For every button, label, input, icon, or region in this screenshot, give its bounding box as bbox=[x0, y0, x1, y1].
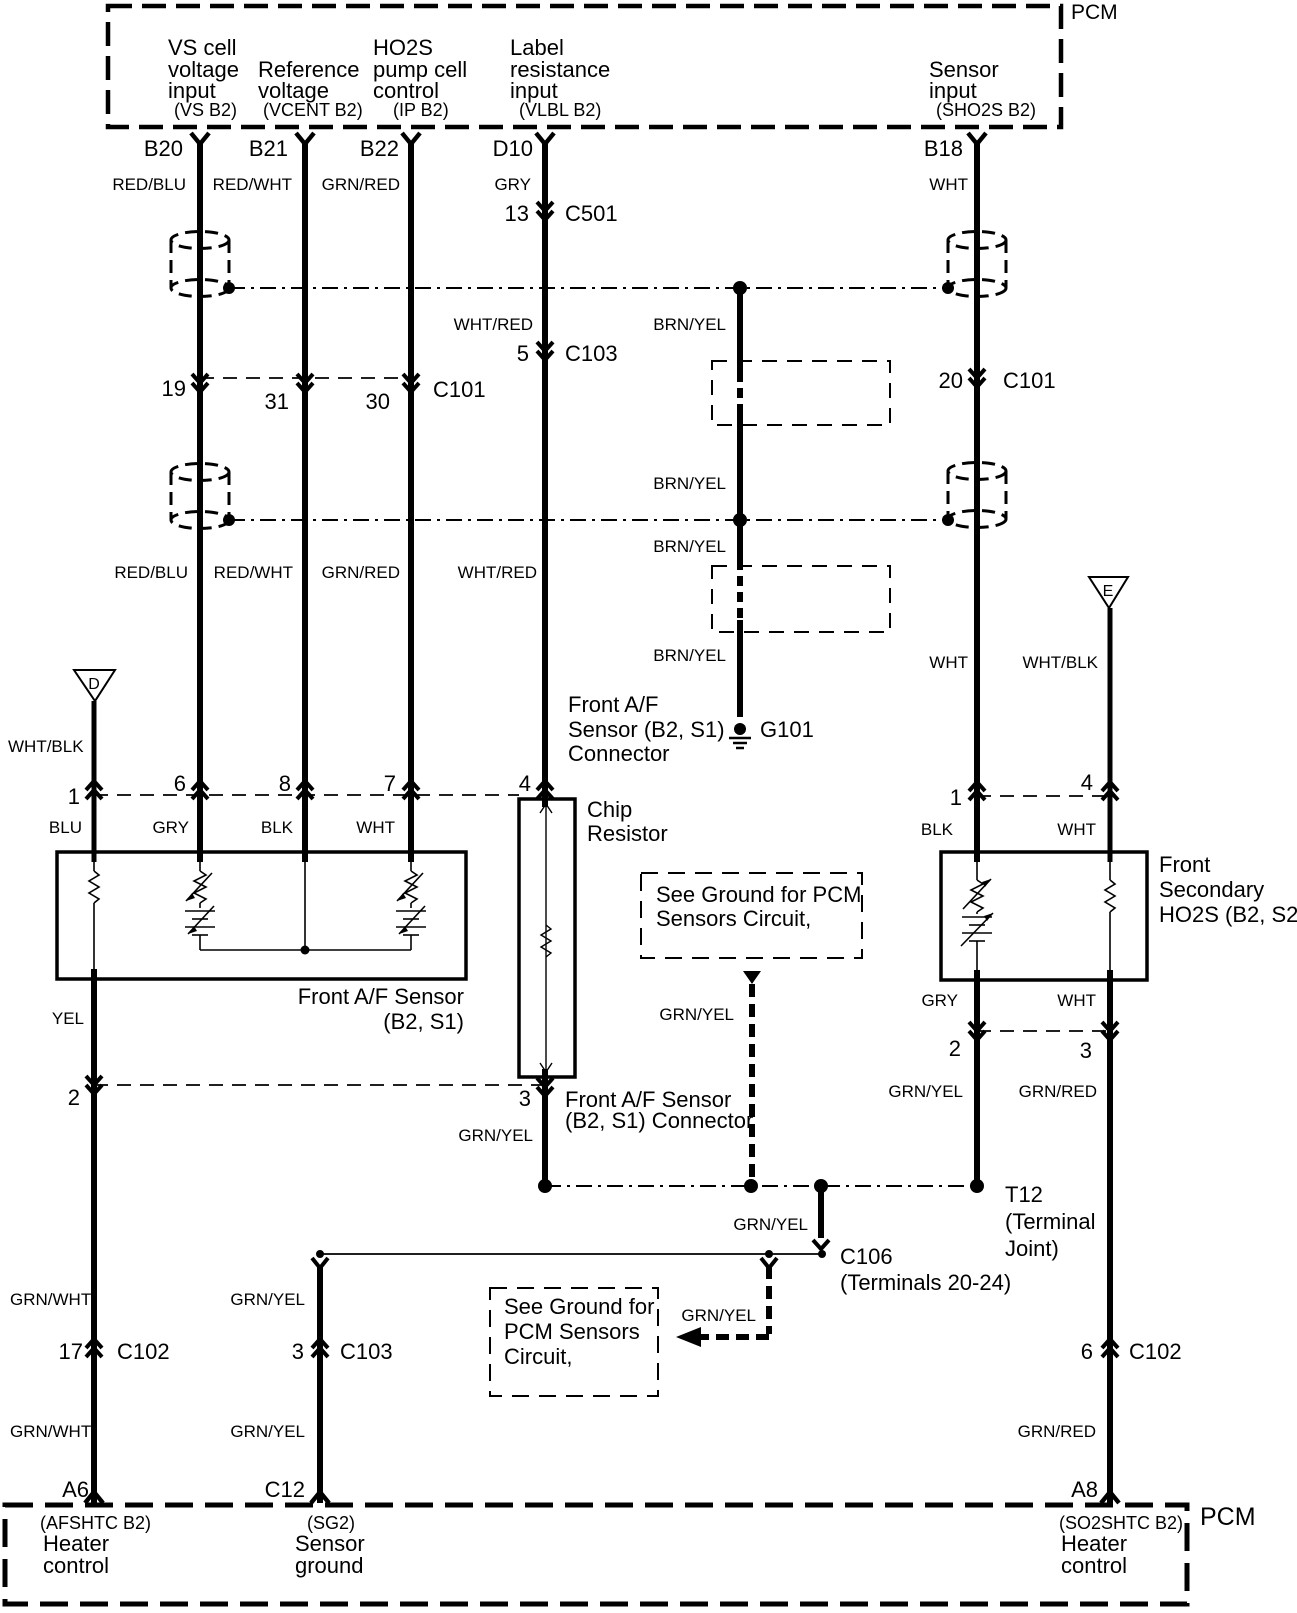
reference dashed box 2 on BRN/YEL wire bbox=[712, 566, 890, 632]
pin 4 (front secondary HO2S connector) bbox=[1081, 770, 1118, 800]
PCM pin function label: Sensor input (SHO2S B2) bbox=[929, 57, 1036, 120]
PCM module box (bottom) bbox=[5, 1503, 1256, 1604]
see-ground dashed box (upper) bbox=[641, 873, 862, 958]
svg-text:GRN/YEL: GRN/YEL bbox=[733, 1215, 808, 1234]
svg-text:A6: A6 bbox=[62, 1477, 89, 1502]
svg-text:WHT/BLK: WHT/BLK bbox=[8, 737, 84, 756]
connector C501 pin 13 bbox=[505, 201, 618, 226]
connector C101 pin 19 bbox=[162, 374, 208, 401]
pin B22 bbox=[360, 133, 420, 161]
svg-text:RED/WHT: RED/WHT bbox=[214, 563, 293, 582]
svg-text:BRN/YEL: BRN/YEL bbox=[653, 537, 726, 556]
svg-text:31: 31 bbox=[265, 389, 289, 414]
svg-text:RED/WHT: RED/WHT bbox=[213, 175, 292, 194]
svg-text:WHT: WHT bbox=[929, 175, 968, 194]
Front Secondary HO2S box bbox=[941, 852, 1147, 980]
connector E triangle bbox=[1089, 577, 1128, 608]
shield drain junction dot (left, lower) bbox=[223, 514, 235, 526]
svg-text:C501: C501 bbox=[565, 201, 618, 226]
node: C106 under connector bbox=[818, 1250, 826, 1258]
svg-text:6: 6 bbox=[174, 771, 186, 796]
svg-text:WHT: WHT bbox=[1057, 820, 1096, 839]
A/F sensor internal: wire 2 variable resistor + cell bbox=[185, 855, 215, 950]
svg-text:GRY: GRY bbox=[921, 991, 958, 1010]
connector fork on C106 lower branch bbox=[761, 1258, 777, 1268]
svg-text:PCM: PCM bbox=[1200, 1503, 1256, 1531]
svg-text:6: 6 bbox=[1081, 1339, 1093, 1364]
svg-text:2: 2 bbox=[68, 1085, 80, 1110]
svg-text:PCM: PCM bbox=[1071, 1, 1118, 24]
svg-text:Front A/F: Front A/F bbox=[568, 692, 658, 717]
connector C101 pin 30 bbox=[366, 374, 486, 414]
svg-text:Sensors Circuit,: Sensors Circuit, bbox=[656, 906, 811, 931]
node: sensor ground tap bbox=[316, 1250, 324, 1258]
T12 terminal joint dash-dot wire bbox=[545, 1185, 977, 1187]
svg-text:BRN/YEL: BRN/YEL bbox=[653, 474, 726, 493]
svg-text:C106: C106 bbox=[840, 1244, 893, 1269]
connector C103 pin 5 bbox=[517, 341, 618, 366]
wire sensor ground down bbox=[317, 1266, 323, 1503]
svg-text:3: 3 bbox=[292, 1339, 304, 1364]
wire GRN/YEL dashed (see-ground to T12) bbox=[749, 984, 755, 1186]
wire from E connector (WHT/BLK) bbox=[1108, 608, 1113, 862]
pin 2 (HO2S connector lower) bbox=[949, 1022, 985, 1061]
svg-text:GRY: GRY bbox=[152, 818, 189, 837]
A/F sensor internal: wire 3 straight bbox=[304, 855, 306, 950]
PCM pin function label: HO2S pump cell control (IP B2) bbox=[373, 35, 467, 120]
svg-text:HO2S (B2, S2): HO2S (B2, S2) bbox=[1159, 902, 1297, 927]
shield drain junction dot (right, upper) bbox=[942, 282, 954, 294]
wire B20 vertical bbox=[197, 141, 203, 862]
svg-text:(VLBL B2): (VLBL B2) bbox=[519, 100, 601, 120]
pin 1 (front secondary HO2S connector) bbox=[950, 782, 985, 810]
svg-text:GRN/YEL: GRN/YEL bbox=[230, 1290, 305, 1309]
label: T12 (Terminal Joint) bbox=[1005, 1182, 1095, 1261]
svg-text:C12: C12 bbox=[265, 1477, 305, 1502]
svg-text:5: 5 bbox=[517, 341, 529, 366]
pin A8 bbox=[1071, 1477, 1119, 1503]
svg-text:(VS B2): (VS B2) bbox=[174, 100, 237, 120]
svg-text:(B2, S1) Connector: (B2, S1) Connector bbox=[565, 1108, 753, 1133]
svg-text:B20: B20 bbox=[144, 136, 183, 161]
svg-text:Circuit,: Circuit, bbox=[504, 1344, 572, 1369]
wire C106 branch down bbox=[818, 1186, 824, 1238]
svg-text:control: control bbox=[1061, 1553, 1127, 1578]
svg-text:A8: A8 bbox=[1071, 1477, 1098, 1502]
svg-text:WHT: WHT bbox=[356, 818, 395, 837]
connector C101 pins 19/31/30 dashed line bbox=[200, 377, 411, 379]
svg-text:7: 7 bbox=[384, 771, 396, 796]
label: Front Secondary HO2S (B2, S2) bbox=[1159, 852, 1297, 927]
shield drain junction dot (right, lower) bbox=[942, 514, 954, 526]
svg-text:2: 2 bbox=[949, 1036, 961, 1061]
svg-text:D10: D10 bbox=[493, 136, 533, 161]
svg-text:20: 20 bbox=[939, 368, 963, 393]
connector C106 cup bbox=[813, 1240, 829, 1249]
svg-text:GRN/RED: GRN/RED bbox=[322, 175, 400, 194]
wire from HO2S pin 2 down bbox=[974, 970, 980, 1186]
arrow from see-ground box bbox=[743, 971, 761, 984]
svg-text:See Ground for PCM: See Ground for PCM bbox=[656, 882, 861, 907]
svg-text:13: 13 bbox=[505, 201, 529, 226]
svg-text:3: 3 bbox=[519, 1086, 531, 1111]
wire from HO2S pin 3 down bbox=[1107, 970, 1113, 1503]
pin B21 bbox=[249, 133, 314, 161]
svg-text:D: D bbox=[88, 676, 100, 693]
arrowhead to see-ground (left pointing) bbox=[676, 1327, 701, 1347]
shield interconnect dash-dot wire (lower) bbox=[229, 519, 948, 521]
pin A6 bbox=[62, 1477, 103, 1503]
svg-text:Sensor (B2, S1): Sensor (B2, S1) bbox=[568, 717, 725, 742]
svg-text:C101: C101 bbox=[433, 377, 486, 402]
svg-text:1: 1 bbox=[950, 785, 962, 810]
svg-text:Secondary: Secondary bbox=[1159, 877, 1264, 902]
connector pin 2 (front A/F sensor connector lower) bbox=[68, 1076, 102, 1110]
connector D triangle bbox=[74, 670, 115, 701]
svg-text:B22: B22 bbox=[360, 136, 399, 161]
svg-text:GRN/YEL: GRN/YEL bbox=[888, 1082, 963, 1101]
svg-text:YEL: YEL bbox=[52, 1009, 84, 1028]
svg-text:BRN/YEL: BRN/YEL bbox=[653, 315, 726, 334]
pin 8 bbox=[279, 771, 313, 799]
svg-text:BLK: BLK bbox=[261, 818, 294, 837]
svg-text:WHT: WHT bbox=[1057, 991, 1096, 1010]
svg-text:WHT/RED: WHT/RED bbox=[458, 563, 537, 582]
svg-text:RED/BLU: RED/BLU bbox=[112, 175, 186, 194]
chip resistor internal: arrowed line + resistor bbox=[540, 804, 552, 1072]
svg-text:GRN/RED: GRN/RED bbox=[322, 563, 400, 582]
label: Front A/F Sensor (B2, S1) Connector (upper) bbox=[568, 692, 725, 766]
svg-text:E: E bbox=[1103, 583, 1114, 600]
shielded cable symbol (right, lower) bbox=[948, 463, 1006, 528]
svg-text:(IP B2): (IP B2) bbox=[393, 100, 449, 120]
dashed line pin2 to chip pin3 bbox=[94, 1084, 545, 1086]
svg-text:See Ground for: See Ground for bbox=[504, 1294, 654, 1319]
svg-text:RED/BLU: RED/BLU bbox=[114, 563, 188, 582]
node: BRN/YEL tap on upper shield wire bbox=[733, 281, 747, 295]
svg-text:(Terminals 20-24): (Terminals 20-24) bbox=[840, 1270, 1011, 1295]
wire B22 vertical bbox=[408, 141, 414, 862]
svg-text:GRN/RED: GRN/RED bbox=[1018, 1422, 1096, 1441]
svg-text:(VCENT B2): (VCENT B2) bbox=[263, 100, 363, 120]
chip resistor box bbox=[519, 799, 575, 1077]
svg-text:(SG2): (SG2) bbox=[307, 1513, 355, 1533]
connector C101 pin 31 bbox=[265, 374, 313, 414]
svg-text:4: 4 bbox=[519, 771, 531, 796]
PCM pin function label: Reference voltage (VCENT B2) bbox=[258, 57, 363, 120]
connector C103 pin 3 bbox=[292, 1339, 393, 1364]
svg-text:GRY: GRY bbox=[494, 175, 531, 194]
ground G101 bbox=[729, 717, 814, 748]
node: T12 left end bbox=[538, 1179, 552, 1193]
svg-text:C102: C102 bbox=[117, 1339, 170, 1364]
connector pin 3 (chip resistor bottom) bbox=[519, 1078, 553, 1111]
shield interconnect dash-dot wire (upper) bbox=[229, 287, 948, 289]
svg-text:17: 17 bbox=[59, 1339, 83, 1364]
wire YEL from A/F sensor down bbox=[91, 969, 97, 1503]
svg-text:GRN/YEL: GRN/YEL bbox=[681, 1306, 756, 1325]
shielded cable symbol (left, upper) bbox=[171, 232, 229, 297]
svg-text:19: 19 bbox=[162, 376, 186, 401]
pin C12 bbox=[265, 1477, 329, 1503]
PCM pin function label: VS cell voltage input (VS B2) bbox=[168, 35, 239, 120]
label: (SG2) Sensor ground bbox=[295, 1513, 365, 1578]
pin 7 bbox=[384, 771, 419, 799]
Front A/F sensor connector dashed line (pins 1,6,8,7,4) bbox=[94, 794, 519, 796]
node: GRN/YEL branch on T12 bbox=[744, 1179, 758, 1193]
A/F sensor internal: wire 4 variable resistor + cell bbox=[396, 855, 426, 950]
svg-text:B18: B18 bbox=[924, 136, 963, 161]
reference dashed box 1 on BRN/YEL wire bbox=[712, 361, 890, 425]
svg-text:Resistor: Resistor bbox=[587, 821, 668, 846]
svg-text:Chip: Chip bbox=[587, 797, 632, 822]
wire BRN/YEL vertical (solid + dashed segments) bbox=[737, 288, 743, 717]
svg-text:30: 30 bbox=[366, 389, 390, 414]
node: BRN/YEL tap on lower shield wire bbox=[733, 513, 747, 527]
HO2S internal: wire 1 variable resistor + cell bbox=[961, 855, 993, 977]
node: C106 branch on T12 bbox=[814, 1179, 828, 1193]
connector C102 pin 17 bbox=[59, 1339, 170, 1364]
svg-text:(B2, S1): (B2, S1) bbox=[383, 1009, 464, 1034]
svg-text:B21: B21 bbox=[249, 136, 288, 161]
svg-text:GRN/RED: GRN/RED bbox=[1019, 1082, 1097, 1101]
wire GRN/YEL dashed to ground reference arrow bbox=[700, 1266, 769, 1337]
svg-text:WHT/RED: WHT/RED bbox=[454, 315, 533, 334]
wire B18 vertical bbox=[974, 141, 980, 862]
node: T12 right end bbox=[970, 1179, 984, 1193]
PCM pin function label: Label resistance input (VLBL B2) bbox=[510, 35, 610, 120]
wire from D connector (WHT/BLK) bbox=[92, 701, 97, 862]
svg-text:8: 8 bbox=[279, 771, 291, 796]
svg-text:BLK: BLK bbox=[921, 820, 954, 839]
label: (AFSHTC B2) Heater control bbox=[40, 1513, 151, 1578]
svg-text:PCM Sensors: PCM Sensors bbox=[504, 1319, 640, 1344]
svg-text:Front A/F Sensor: Front A/F Sensor bbox=[298, 984, 464, 1009]
svg-text:4: 4 bbox=[1081, 770, 1093, 795]
shielded cable symbol (left, lower) bbox=[171, 464, 229, 529]
svg-text:Connector: Connector bbox=[568, 741, 670, 766]
svg-text:T12: T12 bbox=[1005, 1182, 1043, 1207]
svg-text:1: 1 bbox=[68, 784, 80, 809]
svg-text:GRN/WHT: GRN/WHT bbox=[10, 1290, 91, 1309]
svg-text:GRN/YEL: GRN/YEL bbox=[659, 1005, 734, 1024]
pin 3 (HO2S connector lower) bbox=[1080, 1022, 1118, 1063]
svg-text:BRN/YEL: BRN/YEL bbox=[653, 646, 726, 665]
wire D10 vertical bbox=[542, 141, 548, 807]
pin B20 bbox=[144, 133, 209, 161]
svg-text:(AFSHTC B2): (AFSHTC B2) bbox=[40, 1513, 151, 1533]
HO2S connector pins 2/3 dashed line bbox=[977, 1030, 1110, 1032]
see-ground dashed box (lower) bbox=[490, 1288, 658, 1396]
svg-text:G101: G101 bbox=[760, 717, 814, 742]
node: C106 lower branch bbox=[765, 1250, 773, 1258]
HO2S connector pins 1/4 dashed line bbox=[977, 795, 1110, 797]
svg-text:(SHO2S B2): (SHO2S B2) bbox=[936, 100, 1036, 120]
svg-text:GRN/YEL: GRN/YEL bbox=[230, 1422, 305, 1441]
svg-text:GRN/YEL: GRN/YEL bbox=[458, 1126, 533, 1145]
PCM module box (top) bbox=[108, 1, 1118, 127]
svg-text:GRN/WHT: GRN/WHT bbox=[10, 1422, 91, 1441]
svg-text:WHT/BLK: WHT/BLK bbox=[1022, 653, 1098, 672]
svg-text:(Terminal: (Terminal bbox=[1005, 1209, 1095, 1234]
pin 4 (chip resistor top) bbox=[519, 771, 553, 799]
wire B21 vertical bbox=[302, 141, 308, 862]
fork on sensor ground wire bbox=[312, 1258, 328, 1268]
Front A/F Sensor box bbox=[57, 852, 466, 979]
node: internal junction bbox=[301, 946, 310, 955]
pin B18 bbox=[924, 133, 986, 161]
svg-text:C102: C102 bbox=[1129, 1339, 1182, 1364]
connector C102 pin 6 bbox=[1081, 1339, 1182, 1364]
A/F sensor internal: bottom bus wire bbox=[200, 949, 411, 951]
svg-text:3: 3 bbox=[1080, 1038, 1092, 1063]
svg-text:C103: C103 bbox=[565, 341, 618, 366]
svg-text:Joint): Joint) bbox=[1005, 1236, 1059, 1261]
shielded cable symbol (right, upper) bbox=[948, 232, 1006, 297]
svg-text:(SO2SHTC B2): (SO2SHTC B2) bbox=[1059, 1513, 1183, 1533]
connector C101 pin 20 bbox=[939, 368, 1056, 393]
pin 1 (front A/F sensor connector) bbox=[68, 781, 102, 809]
svg-text:control: control bbox=[43, 1553, 109, 1578]
pin 6 bbox=[174, 771, 208, 799]
svg-text:BLU: BLU bbox=[49, 818, 82, 837]
HO2S internal: wire 4 resistor bbox=[1105, 855, 1115, 977]
pin D10 bbox=[493, 133, 554, 161]
svg-text:C103: C103 bbox=[340, 1339, 393, 1364]
shield drain junction dot (left, upper) bbox=[223, 282, 235, 294]
wire below chip resistor bbox=[542, 1069, 548, 1186]
svg-text:C101: C101 bbox=[1003, 368, 1056, 393]
label: (SO2SHTC B2) Heater control bbox=[1059, 1513, 1183, 1578]
thin wire to C103 branch bbox=[320, 1253, 824, 1255]
svg-text:ground: ground bbox=[295, 1553, 364, 1578]
A/F sensor internal: wire 1 element (resistor) bbox=[89, 855, 99, 977]
svg-text:Front: Front bbox=[1159, 852, 1210, 877]
svg-text:WHT: WHT bbox=[929, 653, 968, 672]
